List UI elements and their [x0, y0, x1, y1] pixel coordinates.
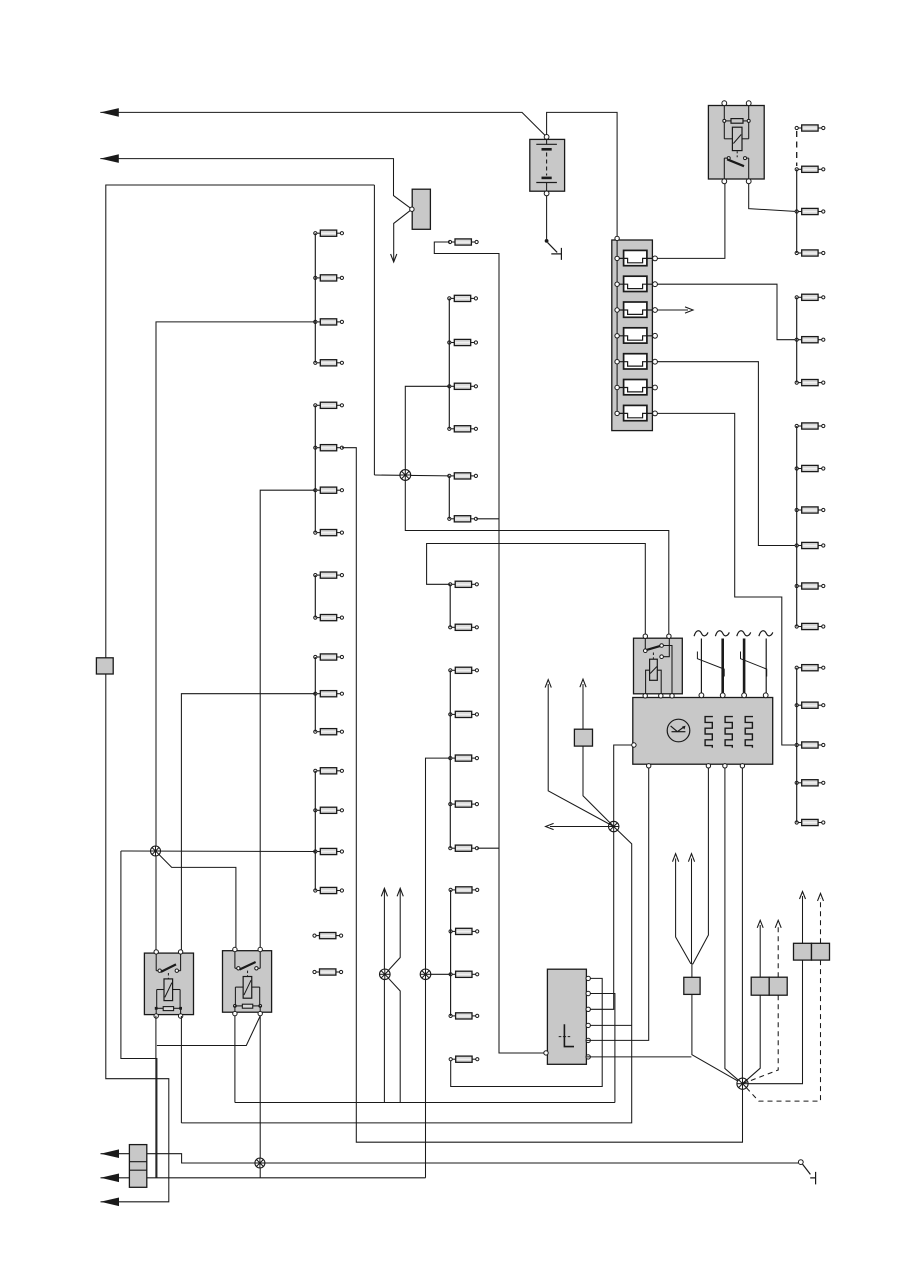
fuse module FB-2 [615, 276, 658, 291]
fuse F-R4-2 (right column group 4) [795, 702, 825, 708]
fuse F-L1-1 (left column group 1) [314, 230, 344, 236]
fuse F-MC-1 (middle group C) [449, 581, 479, 587]
heater coil element 3 inside ECU [745, 717, 753, 748]
heater coil element 2 inside ECU [725, 717, 733, 748]
relay K4 (bottom-left relay 2) [223, 947, 272, 1016]
wire: up-arrow line left of funnel [676, 859, 691, 964]
wire: up-arrow line through connector T2 [583, 684, 614, 827]
ECU top pins [699, 693, 704, 698]
relay K2 bottom pins (on ECU top edge) [643, 694, 647, 698]
fuse F-L4-3 (left column group 4) [314, 729, 344, 735]
wire: junction X4 feed from middle group D fuse 3 down to H5 [426, 758, 451, 1178]
wire: junction X4 to middle group E fuse 3 [426, 973, 451, 975]
wire: arrow from connector K6 [101, 1177, 130, 1179]
fuse F-MA-1 (middle group A) [448, 295, 478, 301]
fuse F-R2-3 (right column group 2) [795, 380, 825, 386]
bus of left fuse group 3 [314, 575, 316, 618]
fuse F-L1-2 (left column group 1) [314, 275, 344, 281]
arrow A13 (up, funnel left) [673, 854, 679, 862]
fuse F-R3-1 (right column group 3) [795, 423, 825, 429]
wire: relay K4 bottom-right pin down through junction X5 [259, 1016, 261, 1178]
fuse F-R4-1 (right column group 4) [795, 665, 825, 671]
bus of right fuse group 2 [796, 297, 798, 382]
fuse F-MA-2 (middle group A) [448, 339, 478, 345]
wire: up-arrow line 1 (through junction X3) down to H1 [383, 889, 385, 1103]
wire: relay K1 right pin to right fuse group 1 [749, 184, 797, 212]
fuse F-R4-4 (right column group 4) [795, 780, 825, 786]
wire: fuse F-MD-5 right stub to long vertical [477, 847, 499, 849]
arrow A18 (up, right dashed) [818, 893, 824, 901]
motor symbol M1 inside ECU [667, 719, 690, 742]
arrow A8 (up, middle) [381, 888, 387, 896]
wire: left G2-F3 feed from relay K4 top-right pin [260, 490, 315, 947]
fuse F-L5-3 (left column group 5) [314, 848, 344, 854]
fuse module FB-6 [615, 380, 658, 395]
relay K1 (gray box with coil, resistor and switch) [708, 101, 764, 184]
fuse F-L2-1 (left column group 2) [314, 402, 344, 408]
fuse module FB-7 [615, 405, 658, 420]
heater coil element 1 inside ECU [705, 717, 713, 748]
fuse F-R3-3 (right column group 3) [795, 507, 825, 513]
fuse F-R1-2 (right column group 1) [795, 166, 825, 172]
switch of relay K2 [644, 638, 646, 649]
wire: big left loop (top and left side) [101, 185, 375, 1202]
fuse F-MB-2 (middle group B) [448, 516, 478, 522]
wire: ECU left pin to junction X6 and to sensor pin3 [586, 745, 634, 1009]
arrow A2 (to other circuit, left) [100, 154, 119, 163]
fuse F-MD-2 (middle group D) [449, 711, 479, 717]
wire W4: battery negative down to switch S1 [546, 193, 548, 239]
switch S1 (battery master switch) [545, 239, 562, 260]
wire: T4 dashed down to junction X7 [743, 995, 779, 1083]
fuse F-ME-4 (middle group E) [449, 1013, 479, 1019]
wire: junction X6 left arrow [550, 826, 614, 828]
resistor inside K3 [163, 1007, 173, 1011]
fuse F-R1-4 (right column group 1) [795, 250, 825, 256]
wire: sensor pin1 loop to fuse F-MF [451, 978, 603, 1086]
fuse F-L5-1 (left column group 5) [314, 768, 344, 774]
bus of middle fuse group A [448, 298, 450, 428]
switch contacts of relay K1 [727, 157, 730, 160]
bus of left fuse group 1 [314, 233, 316, 363]
fuse F-L3-1 (left column group 3) [314, 572, 344, 578]
fuse F-MD-4 (middle group D) [449, 801, 479, 807]
wire: J1 cross vertical (fuse A3 feed down to relay K2 feed) [405, 386, 669, 634]
fuse box FB internal bus [616, 241, 618, 414]
resistor R-K1 inside relay K1 [731, 119, 743, 124]
tower wire 4 (thin, above ECU) [759, 631, 773, 693]
wire: H1 horizontal (relay K4 left pin to sensor pin2 riser) [235, 1102, 615, 1104]
arrow A4 (right, from FB row3) [685, 307, 693, 313]
connector T2 (small box on arrow wire) [574, 729, 592, 746]
fuse F-MC-2 (middle group C) [449, 624, 479, 630]
ECU left pin [632, 743, 636, 747]
arrow A12 (up, through connector T2) [580, 679, 586, 687]
bus of right fuse group 1 (dashed upper segment) [796, 131, 798, 166]
fuse F-L4-1 (left column group 4) [314, 654, 344, 660]
fuse F-R4-5 (right column group 4) [795, 819, 825, 825]
tower wire 2 (thick, above ECU) [715, 631, 729, 693]
bus of right fuse group 1 (solid) [796, 169, 798, 253]
fuse F-L2-3 (left column group 2) [314, 487, 344, 493]
wire: ECU pin4 straight down to junction X7 [741, 768, 743, 1079]
fuse F-M0 (top single fuse) [448, 239, 478, 245]
fuse F-R4-3 (right column group 4) [795, 742, 825, 748]
wire: sensor pin5 from ECU bottom pin1 [586, 768, 648, 1040]
bus of middle fuse group B [448, 476, 450, 519]
wire: ECU pin3 down to junction X7 [725, 768, 743, 1084]
wire W3: second feed line to left arrow / connector T1 [100, 159, 412, 210]
wire: FB row5 to right fuse group 3 [657, 362, 795, 546]
wire: relay K3 bottom-right pin down to horizontal H2 [180, 1016, 182, 1123]
fuse module FB-3 [615, 302, 658, 317]
wire: T4 dashed up arrow [777, 925, 779, 977]
connector T1 (small box) [410, 189, 431, 229]
arrow A10 (left, from junction X6) [546, 823, 554, 829]
arrow A14 (up, funnel centre) [688, 854, 694, 862]
coil of K4 [243, 977, 252, 999]
wire: sensor pin4 stub [586, 1024, 631, 1026]
bus of middle fuse group C [449, 584, 451, 627]
wire: up-arrow line centre of funnel [691, 859, 693, 964]
connector pair T5 dashed half [812, 943, 830, 960]
coil of relay K1 [723, 122, 725, 138]
bus of left fuse group 2 [314, 405, 316, 532]
wire: H2 horizontal (relay K3 right pin to sensor pin4 riser and junction X6 branch) [181, 827, 631, 1123]
wire: up-arrow line 2 with jog through junction X3 down to H1 [385, 889, 400, 1103]
wire: J1 to middle fuse group B [374, 474, 449, 477]
level symbol inside sensor U2 [564, 1024, 574, 1046]
fuse F-R1-1 (right column group 1) [795, 125, 825, 131]
coil of K3 [164, 979, 173, 1001]
fuse F-L3-2 (left column group 3) [314, 615, 344, 621]
connector box K6 (lower of stacked pair) [129, 1169, 146, 1171]
fuse F-L4-2 (left column group 4) [314, 691, 344, 697]
junction X4 [420, 969, 431, 980]
wire: T5 solid down then left to junction X7 [748, 960, 803, 1084]
fuse F-R3-6 (right column group 3) [795, 623, 825, 629]
wire: connector K5 to switch S2 line (H4) [147, 1154, 799, 1163]
fuse F-L7 (standalone) [313, 969, 343, 975]
arrow A17 (up, right) [800, 892, 806, 900]
fuse F-L2-4 (left column group 2) [314, 530, 344, 536]
wire: junction X2 diagonal to relay K4 top-left pin [156, 851, 236, 947]
sensor unit U2 (gray box with level-sensor symbol) [544, 969, 591, 1064]
junction X2 [151, 846, 161, 856]
fuse F-R2-2 (right column group 2) [795, 337, 825, 343]
wire: junction X2 horizontal to left G5-F3 [121, 850, 315, 853]
fuse F-MF (single, to sensor) [449, 1056, 479, 1062]
wire: relay K4 bottom-right diagonal to relay K3 net [157, 1016, 260, 1046]
fuse F-L5-4 (left column group 5) [314, 887, 344, 893]
connector T3 (funnel connector box) [684, 977, 700, 994]
wire: fuse F-MB-2 right end stub to long vertical [476, 518, 499, 520]
connector pair T4 dashed half [769, 977, 787, 995]
wire W3b: connector T1 down to open arrow [394, 209, 412, 261]
fuse F-L1-3 (left column group 1) [314, 319, 344, 325]
wire: connector T3 down to junction X7 [692, 994, 743, 1083]
arrow A5 (bottom-left, third) [101, 1198, 120, 1207]
wire: FB row1 to relay K1 left pin [657, 184, 725, 259]
fuse F-MA-4 (middle group A) [448, 426, 478, 432]
bus of middle fuse group D [449, 670, 451, 848]
connector C2 (small box on left vertical wire) [96, 658, 113, 674]
wire: up-arrow line to junction X6 (left) [548, 684, 614, 827]
fuse module FB-4 [615, 328, 658, 343]
wire: T5 dashed down-left to junction X7 [746, 960, 820, 1101]
fuse F-L6 (standalone) [313, 933, 343, 939]
fuse F-L2-2 (left column group 2) [314, 445, 344, 451]
connector pair T4 solid half [751, 977, 769, 995]
connector pair T5 solid half [794, 943, 812, 960]
crossing slash over towers 3-4 [741, 652, 767, 677]
relay K3 (bottom-left relay 1) [144, 950, 193, 1019]
arrow A3 (down, from connector T1) [391, 254, 397, 262]
arrow A7 (bottom-left, second) [101, 1174, 120, 1183]
bus of right fuse group 4 [796, 668, 798, 823]
junction X5 [255, 1158, 265, 1168]
wire: relay K4 bottom-left pin down to horizontal H1 [234, 1016, 236, 1103]
fuse F-MD-3 (middle group D) [449, 755, 479, 761]
bus of right fuse group 3 [796, 426, 798, 627]
wire: left G1-F3 feed from vertical x156 [156, 322, 315, 950]
fuse F-L1-4 (left column group 1) [314, 360, 344, 366]
arrow A9 (up, middle) [397, 888, 403, 896]
wire: T4 solid up arrow [759, 925, 761, 977]
fuse F-MB-1 (middle group B) [448, 473, 478, 479]
wire W2: battery positive to fuse box bus top [547, 112, 618, 238]
fuse F-R3-5 (right column group 3) [795, 583, 825, 589]
wire: FB row7 to right fuse group 4 [657, 413, 795, 745]
fuse box FB (7 fuse modules) [612, 236, 653, 430]
wire: sensor pin6 stub to funnel net [586, 1056, 691, 1058]
fuse F-L5-2 (left column group 5) [314, 807, 344, 813]
relay K2 (above ECU box) [634, 634, 683, 694]
wire: sensor pin2 riser [586, 994, 615, 1103]
wire: connector K6 to junction X4 riser (H5) [147, 1177, 426, 1179]
ECU bottom pins [647, 764, 651, 768]
wire: left G4-F2 feed from relay K3 top-right pin [181, 694, 315, 950]
fuse F-R3-2 (right column group 3) [795, 465, 825, 471]
arrow A1 (to other circuit, top-left) [100, 108, 119, 117]
wire: T4 solid down to junction X7 [743, 995, 761, 1083]
wire: ECU pin2 down to funnel connector T3 [692, 768, 709, 977]
fuse F-MA-3 (middle group A) [448, 383, 478, 389]
sensor U2 left pin [544, 1051, 548, 1055]
resistor inside K4 [242, 1004, 252, 1008]
wire: relay K2 coil feed from middle group C [427, 544, 646, 635]
fuse F-MD-1 (middle group D) [449, 667, 479, 673]
arrow A15 (up, small) [757, 920, 763, 928]
bus of left fuse group 4 [314, 657, 316, 732]
wire: FB row2 to right fuse group 2 [657, 284, 795, 340]
wire: FB row3 right arrow [657, 309, 688, 311]
bus of left fuse group 5 [314, 771, 316, 891]
fuse F-ME-3 (middle group E) [449, 971, 479, 977]
arrow A6 (bottom-left, first) [101, 1149, 120, 1158]
wire: loop right side down to junction J1 [373, 185, 375, 475]
fuse F-MD-5 (middle group D) [449, 845, 479, 851]
wire: T5 solid up arrow [802, 896, 804, 943]
junction X6 [609, 821, 619, 831]
fuse module FB-5 [615, 354, 658, 369]
wire: relay K3 bottom-left pin down to connector box K6 row [155, 1016, 157, 1178]
fuse module FB-1 [615, 250, 658, 265]
arrow A16 (up, small dashed) [775, 920, 781, 928]
bus of middle fuse group E [450, 890, 452, 1016]
sensor U2 right pins [586, 976, 590, 980]
wire: arrow from connector K5 [101, 1153, 130, 1155]
fuse F-ME-2 (middle group E) [449, 928, 479, 934]
fuse F-R3-4 (right column group 3) [795, 542, 825, 548]
coil of relay K2 [650, 659, 658, 680]
wire W1: top feed line to left arrow from battery positive [100, 112, 546, 136]
wire: junction X2 left branch down to connector box K6 [121, 851, 157, 1178]
ECU / heater control unit U1 (large gray box) [632, 693, 773, 768]
wire: fuse F-M0 loop to long vertical [434, 242, 544, 1053]
switch contacts of K4 [237, 967, 240, 970]
junction X3 [380, 969, 391, 980]
fuse F-ME-1 (middle group E) [449, 887, 479, 893]
fuse F-R2-1 (right column group 2) [795, 294, 825, 300]
switch S2 (bottom right) [798, 1160, 815, 1185]
arrow A11 (up, tall left) [545, 680, 551, 688]
battery B1 [530, 135, 565, 196]
tower wire 3 (thick, above ECU) [737, 631, 751, 693]
tower wire 1 (thin, above ECU) [694, 631, 708, 693]
connector box K5 (upper of stacked pair) [129, 1145, 146, 1188]
junction X1 [400, 470, 411, 481]
wire: T5 dashed up arrow [820, 898, 822, 943]
wire: left G2-F2 to long vertical to junction J6 [342, 448, 743, 1142]
switch contacts of K3 [158, 969, 161, 972]
crossing slash over towers 1-2 [697, 652, 724, 677]
junction X7 [737, 1078, 748, 1089]
fuse F-R1-3 (right column group 1) [795, 208, 825, 214]
